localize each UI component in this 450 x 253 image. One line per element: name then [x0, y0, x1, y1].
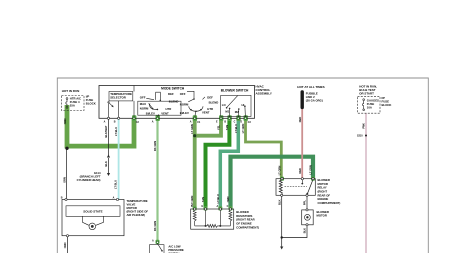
svg-text:25A: 25A: [70, 104, 75, 108]
svg-text:S210: S210: [357, 135, 363, 138]
svg-text:BLK: BLK: [303, 228, 307, 233]
svg-text:OFF: OFF: [140, 95, 146, 99]
svg-text:10A: 10A: [367, 106, 372, 110]
svg-text:ORN: ORN: [63, 242, 67, 248]
svg-text:ORN: ORN: [226, 196, 230, 202]
svg-text:LT BLU: LT BLU: [114, 127, 118, 136]
svg-text:NORM: NORM: [140, 106, 149, 110]
svg-text:M2: M2: [235, 110, 239, 114]
svg-text:MOTOR: MOTOR: [317, 214, 327, 218]
svg-text:RED: RED: [298, 168, 302, 174]
svg-text:DEF: DEF: [168, 92, 174, 96]
svg-text:LT BLU: LT BLU: [114, 180, 118, 189]
svg-text:VENT: VENT: [202, 111, 210, 115]
svg-text:HOT IN RUN: HOT IN RUN: [62, 89, 80, 93]
svg-text:LT GRN: LT GRN: [241, 124, 245, 134]
svg-text:CYLINDER HEAD): CYLINDER HEAD): [77, 178, 101, 182]
svg-text:ORN: ORN: [62, 177, 66, 183]
svg-text:LT GRN: LT GRN: [190, 196, 194, 206]
svg-text:A: A: [190, 121, 192, 124]
svg-text:C: C: [227, 205, 229, 208]
svg-text:HOT AT ALL TIMES: HOT AT ALL TIMES: [297, 85, 324, 89]
svg-text:ORN: ORN: [63, 118, 67, 124]
svg-text:VENT: VENT: [161, 111, 169, 115]
svg-text:HI: HI: [242, 103, 245, 107]
svg-text:YEL: YEL: [217, 125, 221, 130]
svg-text:COMPARTMENT): COMPARTMENT): [318, 201, 341, 205]
svg-text:A: A: [104, 121, 106, 124]
svg-text:SOLID STATE: SOLID STATE: [83, 209, 102, 213]
svg-text:M1: M1: [225, 109, 229, 113]
svg-text:PPL: PPL: [303, 200, 307, 205]
svg-text:HTR: HTR: [166, 107, 172, 111]
svg-text:DK GRN: DK GRN: [153, 221, 157, 231]
svg-text:BLK: BLK: [277, 199, 281, 204]
svg-text:LT GRN: LT GRN: [190, 124, 194, 134]
svg-text:BLK: BLK: [104, 161, 108, 166]
svg-text:B: B: [114, 121, 116, 124]
svg-text:COMPARTMENT): COMPARTMENT): [236, 225, 259, 229]
svg-text:BLOCK: BLOCK: [86, 102, 96, 106]
svg-text:OFF: OFF: [180, 92, 186, 96]
svg-text:BLOWER SWITCH: BLOWER SWITCH: [221, 89, 249, 93]
svg-text:B: B: [61, 197, 63, 200]
svg-text:BI/LEV: BI/LEV: [180, 111, 189, 115]
svg-text:TAN: TAN: [225, 125, 229, 130]
svg-text:ASSEMBLY: ASSEMBLY: [256, 91, 272, 95]
svg-text:LT GRN: LT GRN: [278, 166, 282, 176]
svg-text:LT BLU: LT BLU: [216, 194, 220, 203]
svg-text:D: D: [240, 121, 242, 124]
svg-text:BLK/WHT: BLK/WHT: [104, 125, 108, 137]
svg-text:BLEND: BLEND: [169, 99, 179, 103]
svg-text:NORM: NORM: [180, 103, 189, 107]
svg-text:SELECTOR: SELECTOR: [110, 96, 127, 100]
svg-text:BLOCK: BLOCK: [382, 103, 392, 107]
svg-text:A: A: [152, 240, 154, 243]
svg-text:DK GRN: DK GRN: [153, 141, 157, 151]
svg-text:DEF: DEF: [207, 96, 213, 100]
svg-text:BI/LEV: BI/LEV: [146, 111, 155, 115]
svg-text:A: A: [113, 197, 115, 200]
svg-text:TAN: TAN: [201, 197, 205, 202]
svg-text:B: B: [224, 121, 226, 124]
svg-text:RED: RED: [298, 117, 302, 123]
svg-text:(20 GA ORG): (20 GA ORG): [306, 99, 323, 103]
svg-text:OR START: OR START: [359, 92, 374, 96]
svg-text:AIR PLENUM): AIR PLENUM): [127, 213, 145, 217]
svg-text:MODE SWITCH: MODE SWITCH: [161, 87, 185, 91]
svg-text:C: C: [234, 121, 236, 124]
svg-text:BLEND: BLEND: [209, 101, 219, 105]
svg-text:PNK: PNK: [361, 123, 365, 129]
svg-text:A: A: [152, 121, 154, 124]
svg-text:LT BLU: LT BLU: [234, 124, 238, 133]
svg-text:LT GRN: LT GRN: [308, 165, 312, 175]
svg-text:A: A: [217, 205, 219, 208]
